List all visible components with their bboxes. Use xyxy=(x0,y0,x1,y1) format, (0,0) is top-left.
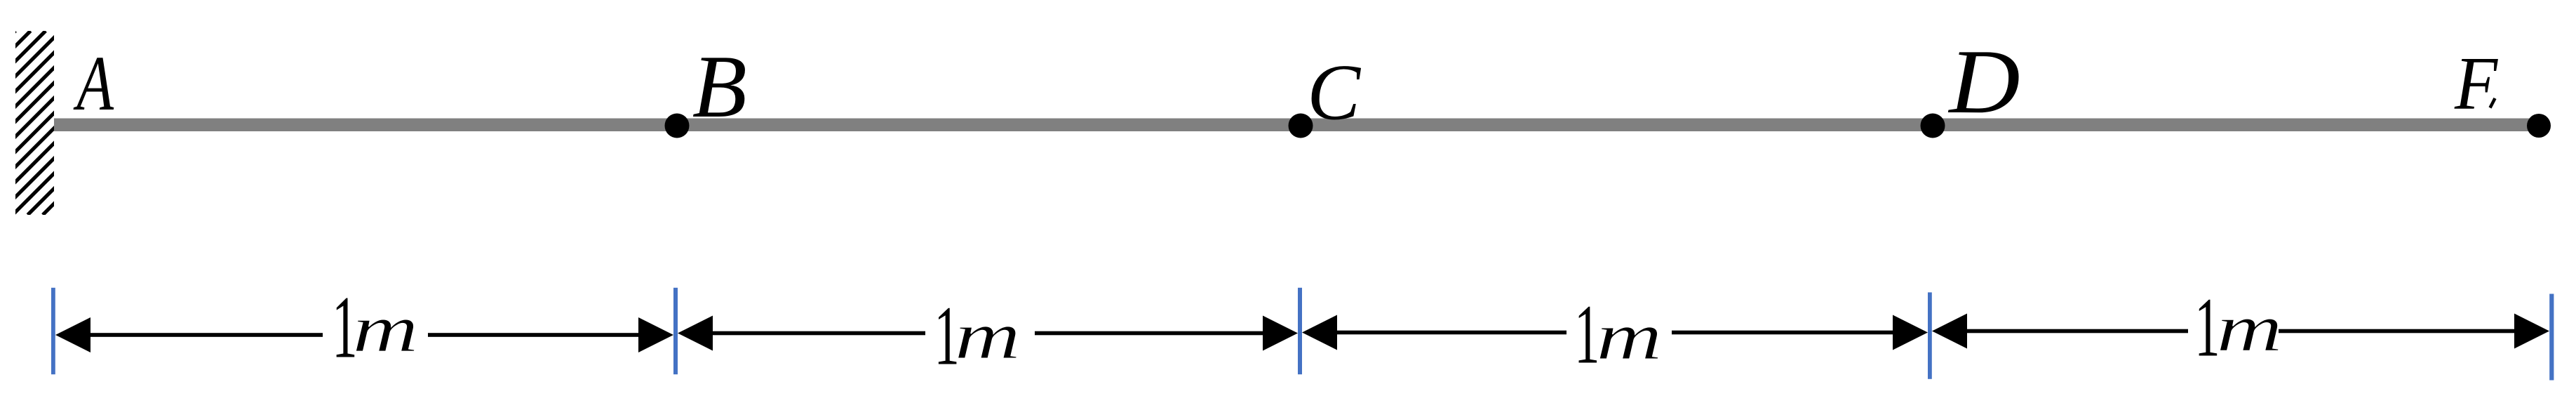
dimension C-D: left arrowhead xyxy=(1302,315,1337,350)
dimension A-B: right line xyxy=(428,333,640,337)
svg-text:D: D xyxy=(1947,31,2020,133)
dimension A-B: right arrowhead xyxy=(638,317,673,352)
dimension B-C: left line xyxy=(711,331,925,336)
beam A-E (gray bar) xyxy=(54,119,2547,132)
dimension A-B: left line xyxy=(89,333,323,337)
dimension C-D: left line xyxy=(1336,331,1567,335)
dimension B-C: right arrowhead xyxy=(1263,316,1298,351)
extension tick T4 (blue, at D) xyxy=(1928,292,1932,378)
node C dot xyxy=(1289,114,1313,138)
svg-text:m: m xyxy=(2216,291,2282,365)
extension tick T1 (blue, at A) xyxy=(51,288,55,374)
svg-text:C: C xyxy=(1307,48,1361,136)
dimension C-D: right arrowhead xyxy=(1893,315,1928,350)
dimension B-C: right line xyxy=(1035,331,1265,336)
node D dot xyxy=(1921,114,1945,138)
dimension D-E: left line xyxy=(1966,329,2188,334)
svg-text:m: m xyxy=(352,291,418,366)
extension tick T2 (blue, at B) xyxy=(673,288,678,374)
dimension B-C: left arrowhead xyxy=(678,316,713,351)
svg-text:m: m xyxy=(955,298,1021,373)
node B dot xyxy=(665,114,690,138)
dimension D-E: right line xyxy=(2279,329,2516,334)
svg-text:m: m xyxy=(1596,299,1662,374)
dimension C-D: right line xyxy=(1672,331,1895,335)
extension tick T3 (blue, at C) xyxy=(1298,288,1302,374)
svg-text:A: A xyxy=(73,41,114,127)
dimension D-E: left arrowhead xyxy=(1932,314,1967,349)
svg-text:B: B xyxy=(692,37,747,136)
dimension A-B: left arrowhead xyxy=(55,317,90,352)
svg-text:F: F xyxy=(2454,42,2499,126)
dimension D-E: right arrowhead xyxy=(2514,314,2549,349)
node E dot xyxy=(2527,114,2551,138)
extension tick T5 (blue, at E) xyxy=(2549,294,2554,381)
